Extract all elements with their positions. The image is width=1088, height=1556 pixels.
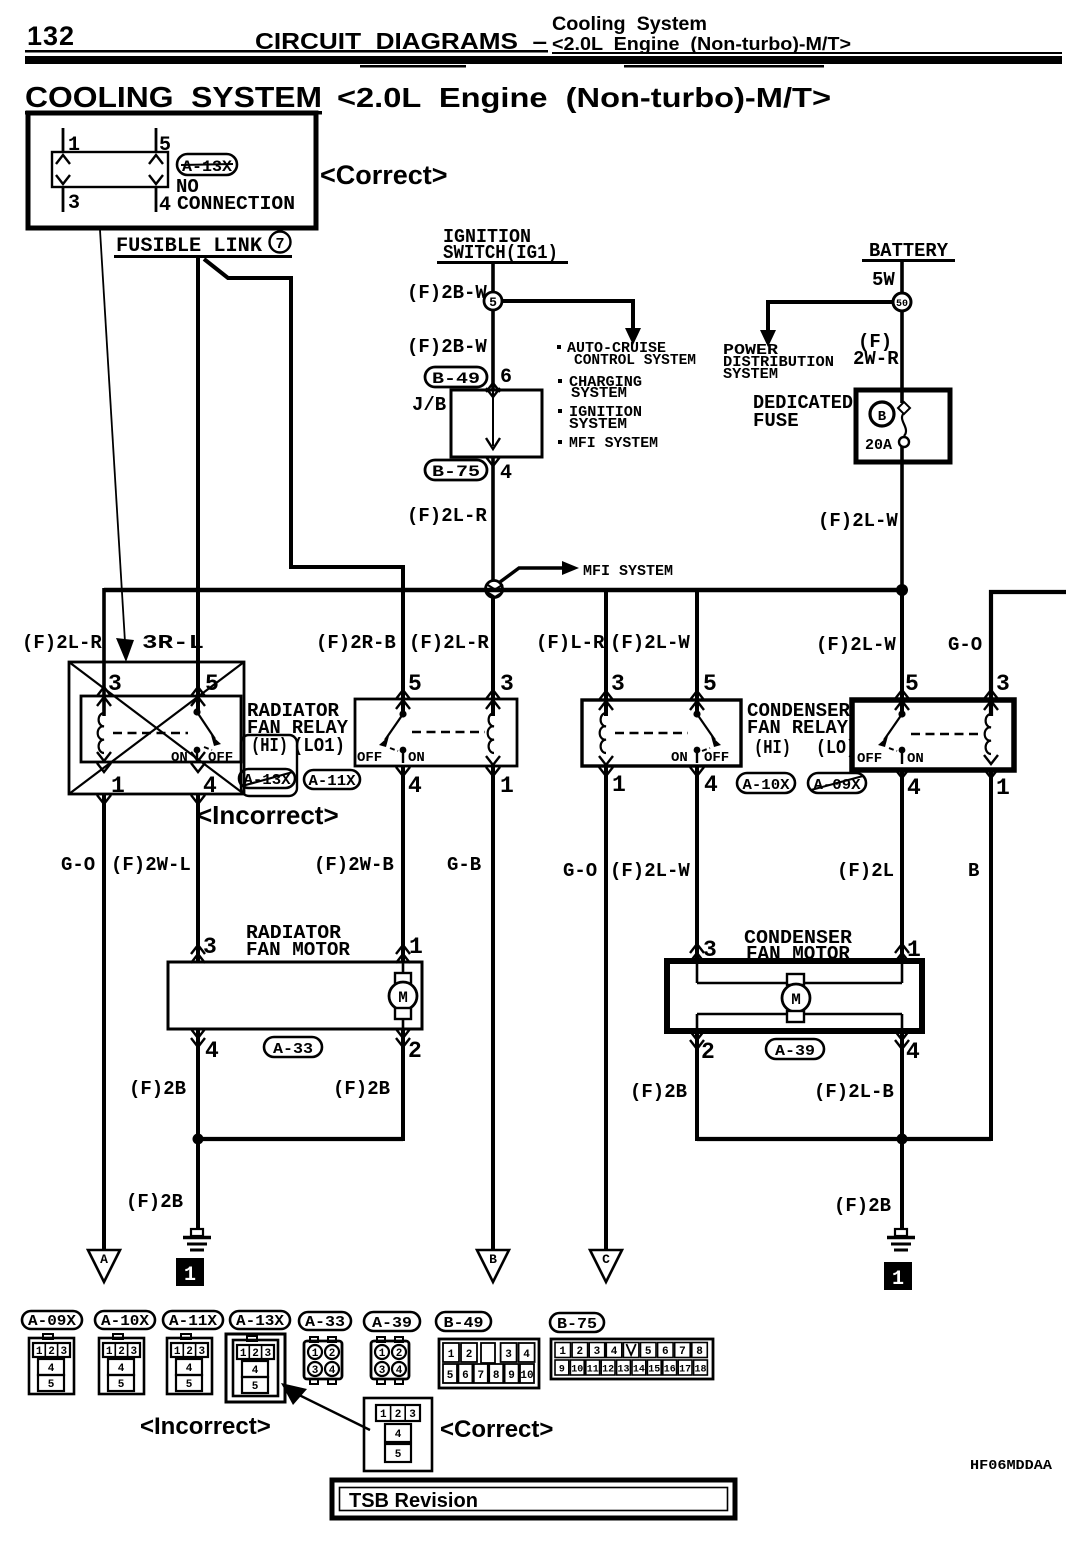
svg-text:FUSIBLE LINK: FUSIBLE LINK	[116, 235, 262, 258]
svg-text:2: 2	[186, 1346, 193, 1358]
junction block J/B box	[451, 390, 542, 457]
svg-text:4: 4	[396, 1365, 403, 1377]
radiator ground symbol	[183, 1229, 211, 1250]
svg-text:(F)2L-R: (F)2L-R	[409, 632, 489, 654]
svg-text:M: M	[791, 991, 801, 1009]
connector pin 5 lead	[155, 128, 158, 152]
splice node S	[486, 581, 504, 598]
wire bus left drop to relay pin3	[102, 588, 106, 716]
svg-text:ON: ON	[671, 750, 688, 766]
wire A-10X pin1 to terminal C	[604, 766, 608, 1250]
svg-text:5: 5	[408, 671, 422, 697]
svg-text:A-11X: A-11X	[309, 773, 356, 790]
pointer arrowhead	[281, 1383, 307, 1405]
label CONDENSER FAN MOTOR	[744, 927, 853, 965]
svg-text:13: 13	[617, 1365, 629, 1376]
svg-text:3: 3	[130, 1346, 137, 1358]
svg-text:1: 1	[184, 1264, 196, 1287]
leader line to incorrect relay	[100, 230, 125, 642]
svg-text:4: 4	[205, 1038, 219, 1064]
connector legend A-11X tag	[163, 1311, 223, 1330]
A-10X switch	[693, 710, 721, 763]
label RADIATOR FAN MOTOR	[246, 922, 351, 961]
svg-text:4: 4	[906, 1039, 920, 1065]
wire condenser motor pin4 to ground	[900, 1031, 904, 1228]
radiator ground junction dot	[193, 1134, 204, 1145]
connector legend A-33 icon	[304, 1337, 342, 1384]
svg-text:SYSTEM: SYSTEM	[569, 416, 627, 433]
svg-text:2: 2	[466, 1349, 473, 1361]
incorrect relay coil	[98, 713, 104, 753]
svg-text:3: 3	[611, 671, 625, 697]
A-09X ON OFF	[857, 751, 924, 767]
terminal arrow C	[590, 1250, 622, 1282]
svg-text:4: 4	[611, 1346, 618, 1358]
svg-text:3: 3	[505, 1349, 512, 1361]
svg-text:B-75: B-75	[432, 463, 480, 481]
svg-text:4: 4	[252, 1365, 259, 1377]
svg-text:4: 4	[523, 1349, 530, 1361]
connector legend B-49 tag	[436, 1312, 491, 1332]
wire label (F)2W-R	[853, 331, 899, 370]
svg-text:OFF: OFF	[857, 751, 882, 767]
wire A-11X pin1 to terminal B	[491, 766, 495, 1250]
svg-text:6: 6	[500, 366, 512, 389]
svg-text:(F)2L-R: (F)2L-R	[407, 505, 487, 527]
branch to power distribution	[768, 302, 893, 331]
svg-text:3: 3	[108, 671, 122, 697]
wire G-O feed from right	[991, 592, 1066, 716]
svg-text:SYSTEM: SYSTEM	[723, 366, 778, 383]
svg-text:3R-L: 3R-L	[142, 632, 204, 654]
A-09X switch	[878, 710, 906, 764]
svg-text:3: 3	[68, 192, 80, 215]
svg-text:CONNECTION: CONNECTION	[177, 193, 295, 215]
svg-text:(F)2W-L: (F)2W-L	[111, 854, 191, 876]
svg-text:(F)2L-B: (F)2L-B	[814, 1081, 894, 1103]
svg-text:A-10X: A-10X	[101, 1313, 149, 1330]
wire node5 down to JB	[491, 310, 495, 390]
svg-text:ON: ON	[408, 750, 425, 766]
svg-text:G-O: G-O	[61, 854, 95, 876]
svg-text:2: 2	[576, 1346, 583, 1358]
svg-text:FAN RELAY: FAN RELAY	[747, 717, 849, 739]
svg-text:1: 1	[174, 1346, 181, 1358]
incorrect relay switch	[193, 708, 221, 762]
svg-text:ON: ON	[171, 750, 188, 766]
header thin underline left	[25, 50, 548, 53]
A-11X pin numbers	[408, 671, 514, 799]
incorrect relay pin chevrons	[97, 687, 205, 804]
terminal arrow B	[477, 1250, 509, 1282]
svg-text:CONTROL SYSTEM: CONTROL SYSTEM	[574, 352, 696, 369]
relay A-10X condenser HI body	[582, 700, 741, 766]
radiator motor M symbol	[389, 962, 417, 1029]
A-11X pin chevrons	[396, 690, 500, 776]
svg-text:(F)2L-W: (F)2L-W	[610, 632, 690, 654]
svg-text:14: 14	[633, 1365, 645, 1376]
condenser fan motor box thick	[667, 961, 922, 1031]
svg-text:A-13X: A-13X	[236, 1313, 284, 1330]
svg-text:A-11X: A-11X	[169, 1313, 217, 1330]
node circled 50	[893, 293, 911, 311]
svg-text:3: 3	[703, 937, 717, 963]
svg-text:(F)2B: (F)2B	[834, 1195, 891, 1217]
svg-text:MFI SYSTEM: MFI SYSTEM	[569, 435, 658, 452]
svg-text:9: 9	[559, 1365, 565, 1376]
svg-text:A-39: A-39	[372, 1315, 412, 1332]
wire ignition to node 5	[491, 264, 495, 293]
wire radiator motor pin2 down	[401, 1029, 405, 1141]
svg-text:1: 1	[36, 1346, 43, 1358]
svg-text:16: 16	[664, 1365, 676, 1376]
svg-text:8: 8	[493, 1370, 500, 1382]
svg-text:SWITCH(IG1): SWITCH(IG1)	[443, 242, 558, 264]
svg-text:5: 5	[489, 295, 497, 310]
grouping box around HI and A-13X	[241, 735, 297, 796]
wire radiator motor pin4 to ground	[196, 1029, 200, 1228]
A-10X coil	[600, 713, 606, 753]
svg-text:4: 4	[329, 1365, 336, 1377]
A-11X switch	[379, 710, 407, 763]
svg-text:3: 3	[594, 1346, 601, 1358]
A-09X pin numbers	[905, 671, 1010, 801]
condenser ground bus horizontal	[697, 1137, 991, 1141]
svg-text:1: 1	[106, 1346, 113, 1358]
svg-text:4: 4	[118, 1363, 125, 1375]
svg-text:(F)2B-W: (F)2B-W	[407, 282, 487, 304]
A-10X pin chevrons	[599, 691, 704, 776]
svg-text:<Incorrect>: <Incorrect>	[197, 800, 339, 830]
svg-text:7: 7	[275, 236, 284, 253]
condenser motor M symbol	[782, 974, 810, 1022]
svg-text:<2.0L Engine (Non-turbo)-M/T: <2.0L Engine (Non-turbo)-M/T>	[337, 82, 831, 113]
branch arrowhead	[625, 328, 641, 345]
radiator ground ref box 1	[176, 1258, 204, 1287]
svg-text:4: 4	[704, 772, 718, 798]
svg-text:5: 5	[48, 1379, 55, 1391]
svg-text:2W-R: 2W-R	[853, 348, 899, 370]
svg-text:B: B	[878, 409, 887, 425]
svg-text:1: 1	[612, 772, 626, 798]
power distribution arrowhead	[760, 330, 776, 347]
svg-text:5: 5	[205, 671, 219, 697]
wire incorrect relay pin1 to terminal A	[102, 794, 106, 1250]
correct connector icon	[364, 1398, 432, 1471]
svg-text:(HI): (HI)	[754, 737, 791, 759]
svg-text:A: A	[100, 1252, 108, 1267]
svg-text:C: C	[602, 1252, 610, 1267]
main title underline	[25, 111, 322, 115]
relay A-09X condenser LO body thick	[852, 700, 1014, 770]
connector pin 1 lead	[62, 128, 65, 152]
svg-text:5: 5	[186, 1379, 193, 1391]
dedicated fuse box	[856, 390, 950, 462]
incorrect relay ON OFF	[171, 750, 233, 766]
pointer line to A-13X connector	[295, 1393, 370, 1430]
svg-text:A-09X: A-09X	[28, 1313, 76, 1330]
svg-text:G-O: G-O	[563, 860, 597, 882]
svg-text:B-75: B-75	[557, 1316, 597, 1333]
svg-text:5: 5	[159, 134, 171, 157]
systems bullet list	[557, 340, 696, 452]
svg-text:B-49: B-49	[444, 1315, 484, 1332]
svg-text:3: 3	[500, 671, 514, 697]
svg-text:(F)2B: (F)2B	[333, 1078, 390, 1100]
svg-text:1: 1	[240, 1348, 247, 1360]
svg-text:B: B	[968, 860, 979, 882]
incorrect relay outer box with cross	[69, 662, 244, 794]
TSB Revision box	[332, 1480, 735, 1518]
svg-text:1: 1	[380, 1409, 387, 1421]
svg-text:COOLING SYSTEM: COOLING SYSTEM	[25, 82, 322, 114]
svg-text:1: 1	[559, 1346, 566, 1358]
svg-text:(F)2R-B: (F)2R-B	[316, 632, 396, 654]
svg-text:1: 1	[312, 1348, 319, 1360]
connector legend A-39 icon	[371, 1337, 409, 1384]
tag A-13X crossed stadium	[239, 769, 295, 789]
svg-text:TSB Revision: TSB Revision	[349, 1490, 478, 1512]
svg-text:11: 11	[587, 1365, 599, 1376]
svg-text:OFF: OFF	[208, 750, 233, 766]
svg-text:4: 4	[159, 194, 171, 217]
wire fuse to bus junction	[900, 446, 904, 592]
wire splice to A-11X pin3	[491, 597, 495, 716]
svg-text:15: 15	[648, 1365, 660, 1376]
wire A-09X pin1 down	[989, 770, 993, 1141]
svg-text:A-13X: A-13X	[182, 158, 232, 176]
svg-text:10: 10	[571, 1365, 583, 1376]
svg-text:1: 1	[111, 773, 125, 799]
connector legend A-09X tag	[22, 1311, 82, 1330]
tag A-09X stadium	[808, 773, 866, 794]
svg-text:50: 50	[896, 299, 908, 310]
svg-text:4: 4	[48, 1363, 55, 1375]
svg-text:M: M	[398, 989, 408, 1007]
connector legend A-13X tag	[230, 1311, 290, 1330]
svg-text:10: 10	[520, 1370, 533, 1382]
circled 7	[270, 232, 291, 254]
svg-text:<Incorrect>: <Incorrect>	[140, 1413, 271, 1440]
connector legend B-75 icon	[551, 1339, 713, 1379]
svg-text:2: 2	[395, 1409, 402, 1421]
svg-text:5: 5	[252, 1381, 259, 1393]
condenser ground symbol	[887, 1229, 915, 1250]
connector legend A-10X icon	[99, 1334, 144, 1394]
terminal arrow A	[88, 1250, 120, 1282]
svg-text:(F)2L-R: (F)2L-R	[22, 632, 102, 654]
svg-text:3: 3	[264, 1348, 271, 1360]
svg-text:5: 5	[645, 1346, 652, 1358]
radiator fan motor box	[168, 962, 422, 1029]
A-10X ON OFF	[671, 750, 729, 766]
svg-text:ON: ON	[907, 751, 924, 767]
svg-text:B: B	[489, 1252, 497, 1267]
connector legend A-11X icon	[167, 1334, 212, 1394]
svg-text:2: 2	[396, 1348, 403, 1360]
svg-text:3: 3	[409, 1409, 416, 1421]
header thick rule	[25, 56, 1062, 64]
A-11X dashed link	[412, 731, 485, 733]
radiator motor pin chevrons	[191, 945, 410, 1047]
svg-text:1: 1	[907, 937, 921, 963]
svg-text:4: 4	[395, 1429, 402, 1441]
wire incorrect relay pin4 to radiator motor pin3	[196, 794, 200, 962]
wire battery junction to A-09X pin5	[900, 590, 904, 714]
condenser motor pin numbers	[701, 937, 921, 1065]
wire fusible link feed 2 elbow	[204, 259, 403, 714]
incorrect relay inner body	[81, 696, 241, 762]
svg-text:SYSTEM: SYSTEM	[571, 385, 627, 402]
svg-text:12: 12	[602, 1365, 614, 1376]
connector legend A-09X icon	[29, 1334, 74, 1394]
svg-text:A-33: A-33	[305, 1314, 345, 1331]
svg-text:(F)2B: (F)2B	[129, 1078, 186, 1100]
incorrect relay pin numbers	[108, 671, 219, 799]
svg-text:G-B: G-B	[447, 854, 481, 876]
svg-text:5W: 5W	[872, 269, 895, 291]
svg-text:G-O: G-O	[948, 634, 982, 656]
svg-text:FAN MOTOR: FAN MOTOR	[246, 939, 351, 961]
radiator ground bus horizontal	[198, 1137, 403, 1141]
svg-text:(F)2B: (F)2B	[126, 1191, 183, 1213]
bus junction dot at battery wire	[896, 584, 908, 596]
svg-text:A-33: A-33	[273, 1041, 313, 1058]
svg-text:18: 18	[694, 1365, 706, 1376]
svg-text:4: 4	[186, 1363, 193, 1375]
connector pin 5 lower lead	[155, 187, 158, 212]
svg-text:1: 1	[448, 1349, 455, 1361]
svg-text:2: 2	[329, 1348, 336, 1360]
wire A-10X pin4 to condenser motor pin3	[695, 766, 699, 961]
svg-text:FUSE: FUSE	[753, 410, 799, 432]
tag B-75 stadium	[425, 460, 487, 481]
connector legend A-10X tag	[95, 1311, 155, 1330]
svg-text:4: 4	[408, 773, 422, 799]
svg-text:OFF: OFF	[357, 750, 382, 766]
svg-text:7: 7	[477, 1370, 484, 1382]
header rule shadow dashes	[360, 65, 466, 68]
svg-text:3: 3	[312, 1365, 319, 1377]
svg-text:4: 4	[907, 775, 921, 801]
tag A-11X stadium	[304, 770, 360, 790]
svg-text:<2.0L Engine (Non-turbo)-M/T: <2.0L Engine (Non-turbo)-M/T>	[552, 34, 851, 54]
leader arrowhead	[116, 638, 134, 662]
svg-text:1: 1	[409, 934, 423, 960]
svg-text:(F)2L-W: (F)2L-W	[818, 510, 898, 532]
main power bus	[104, 588, 902, 593]
svg-text:5: 5	[395, 1449, 402, 1461]
connector legend A-39 tag	[364, 1312, 420, 1332]
A-10X pin numbers	[611, 671, 718, 798]
svg-text:(F)2L-W: (F)2L-W	[816, 634, 896, 656]
svg-text:Cooling System: Cooling System	[552, 14, 707, 35]
svg-text:<Correct>: <Correct>	[320, 160, 448, 190]
svg-text:(F)2B: (F)2B	[630, 1081, 687, 1103]
wire A-09X pin4 to condenser motor pin1	[900, 770, 904, 961]
svg-text:3: 3	[60, 1346, 67, 1358]
svg-text:4: 4	[203, 773, 217, 799]
svg-text:(HI): (HI)	[251, 735, 288, 757]
wire A-11X pin4 to radiator motor pin1	[401, 766, 405, 962]
correct-connector callout box	[28, 113, 316, 228]
svg-text:8: 8	[696, 1346, 703, 1358]
header thin underline right	[552, 52, 1062, 54]
svg-text:(F)L-R: (F)L-R	[536, 632, 605, 654]
fuse element	[898, 402, 910, 447]
fusible link underline	[114, 255, 292, 258]
condenser ground junction dot	[897, 1134, 908, 1145]
A-09X dashed link	[911, 733, 982, 735]
wire battery to node	[900, 262, 904, 294]
svg-text:5: 5	[905, 671, 919, 697]
connector pin 3 lead	[62, 187, 65, 212]
svg-text:A-39: A-39	[775, 1043, 815, 1060]
JB exit chevron	[486, 457, 500, 466]
connector legend A-13X icon double box	[226, 1334, 285, 1402]
wire node to fuse box	[900, 310, 904, 403]
JB entry chevrons	[486, 383, 500, 392]
wire fusible link feed 1 (3R-L)	[196, 258, 200, 712]
svg-text:20A: 20A	[865, 437, 892, 454]
circled B fuse id	[870, 402, 894, 426]
svg-text:5: 5	[703, 671, 717, 697]
svg-text:2: 2	[252, 1348, 259, 1360]
svg-text:3: 3	[379, 1365, 386, 1377]
connector pin 1 terminal chevrons	[56, 155, 70, 164]
svg-text:(F)2L: (F)2L	[837, 860, 894, 882]
A-09X pin chevrons	[895, 690, 998, 778]
svg-text:MFI SYSTEM: MFI SYSTEM	[583, 563, 673, 580]
svg-text:(F)2L-W: (F)2L-W	[610, 860, 690, 882]
svg-text:3: 3	[203, 934, 217, 960]
condenser motor pin chevrons	[690, 944, 909, 1049]
svg-text:J/B: J/B	[412, 394, 446, 416]
A-09X coil	[985, 714, 991, 754]
tag B-49 stadium	[425, 367, 487, 388]
svg-text:7: 7	[679, 1346, 686, 1358]
svg-text:<Correct>: <Correct>	[440, 1416, 553, 1443]
arrow to MFI SYSTEM	[500, 568, 563, 582]
label RADIATOR FAN RELAY	[247, 700, 349, 757]
ignition switch underline	[437, 261, 568, 264]
tag A-13X stadium	[177, 154, 237, 176]
incorrect relay coil dashed link	[113, 732, 188, 734]
svg-text:1: 1	[68, 134, 80, 157]
svg-text:A-10X: A-10X	[743, 777, 790, 794]
battery underline	[862, 259, 955, 262]
svg-text:B-49: B-49	[432, 370, 480, 388]
svg-text:1: 1	[379, 1348, 386, 1360]
svg-text:1: 1	[996, 775, 1010, 801]
radiator motor pin numbers	[203, 934, 423, 1064]
svg-text:5: 5	[118, 1379, 125, 1391]
svg-text:3: 3	[996, 671, 1010, 697]
tag A-33 stadium	[264, 1037, 322, 1058]
svg-text:HF06MDDAA: HF06MDDAA	[970, 1458, 1053, 1474]
connector A-13X symbol body	[52, 152, 168, 187]
svg-text:1: 1	[892, 1268, 904, 1291]
svg-text:2: 2	[408, 1038, 422, 1064]
svg-text:2: 2	[118, 1346, 125, 1358]
svg-text:(F)2W-B: (F)2W-B	[314, 854, 394, 876]
wire bus drop to A-10X pin3	[604, 590, 608, 716]
wire inside JB	[492, 390, 494, 446]
connector pin 5 terminal chevrons	[149, 155, 163, 164]
svg-text:6: 6	[662, 1346, 669, 1358]
svg-text:17: 17	[679, 1365, 691, 1376]
wire branch to systems	[502, 301, 633, 329]
